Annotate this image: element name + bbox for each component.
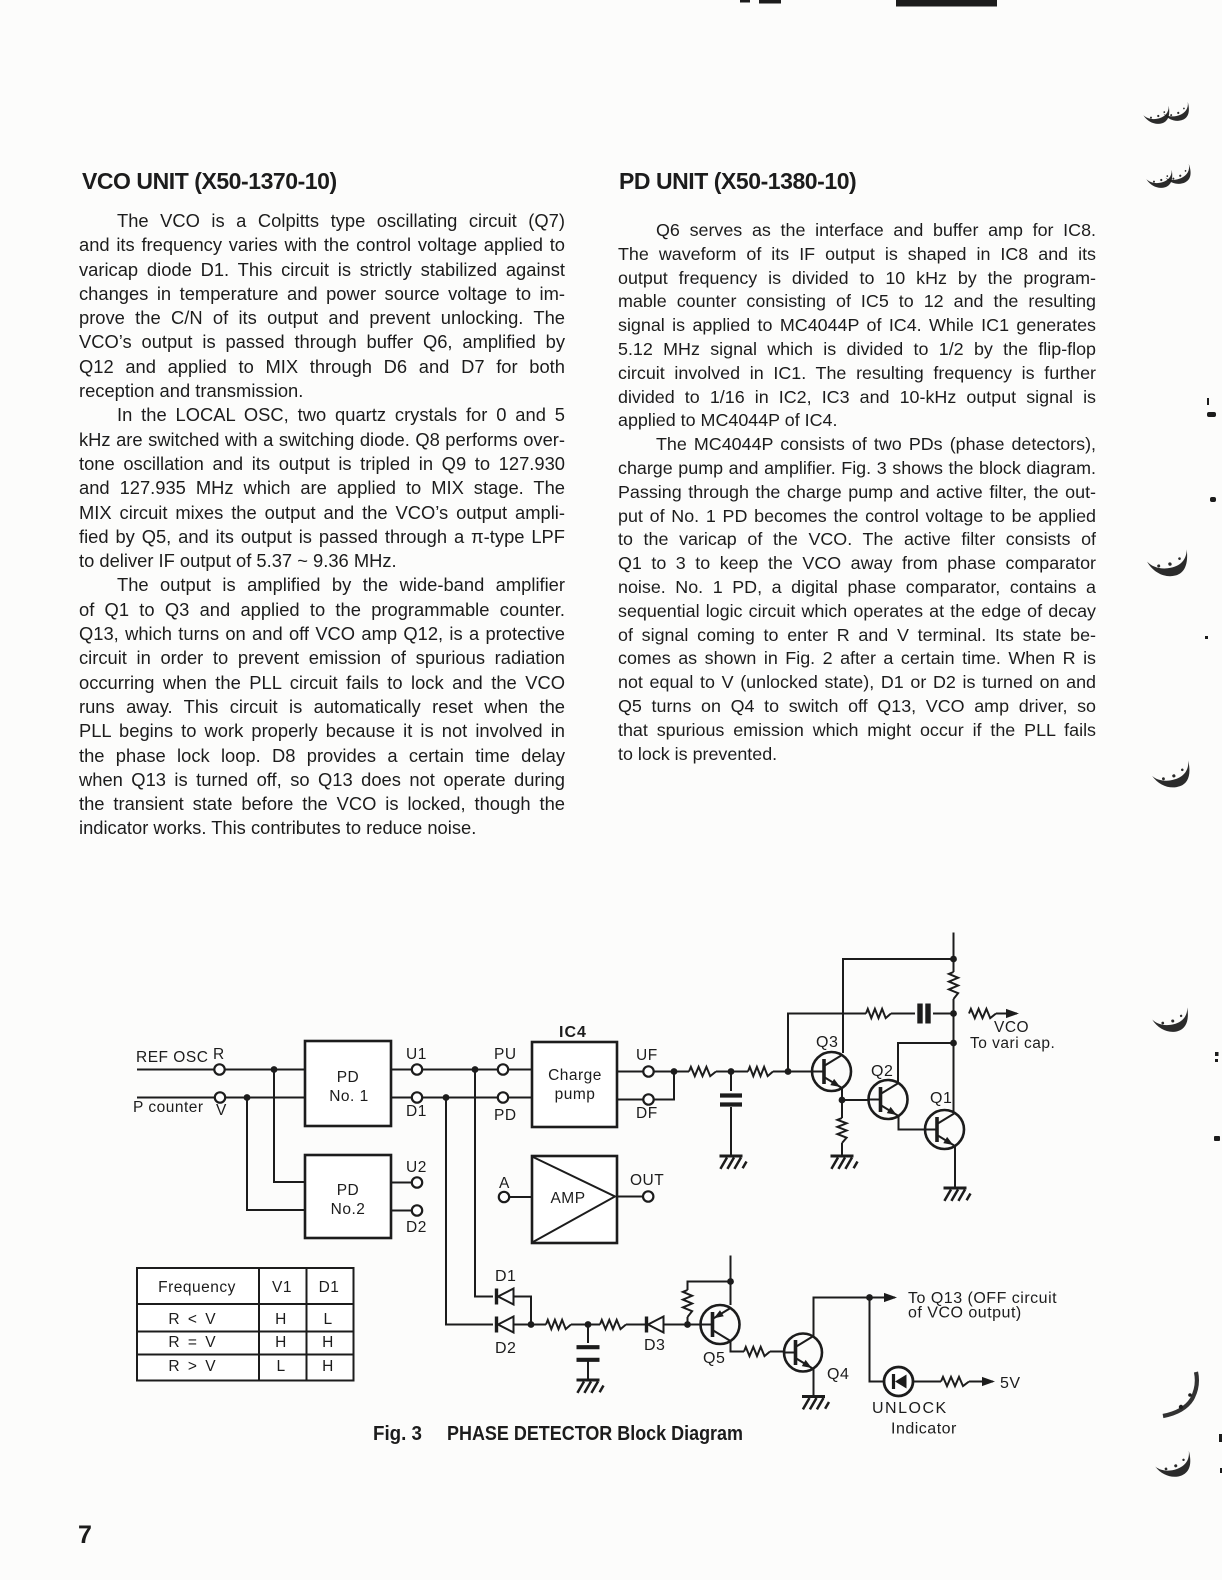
diode D2 (495, 1317, 516, 1358)
svg-text:D2: D2 (406, 1219, 427, 1236)
resistor active filter R2 (748, 1067, 773, 1076)
AMP block (532, 1156, 617, 1243)
label To Q13 (OFF circuit (908, 1290, 1057, 1307)
label To vari cap. (970, 1035, 1055, 1052)
node D1 (PD No.1 down output) (391, 1092, 427, 1120)
wire capacitor to VCO node (933, 1010, 957, 1017)
ground under shunt capacitor (720, 1156, 747, 1169)
node to vari cap junction (950, 1040, 957, 1113)
IC4 charge pump block (532, 1024, 617, 1127)
left column text (79, 210, 565, 842)
heading PD UNIT (619, 168, 856, 195)
wire DF tied up to UF node (654, 1072, 674, 1100)
heading VCO UNIT (82, 168, 337, 195)
transistor Q1 (925, 1090, 964, 1149)
wire Q1 emitter to ground (954, 1146, 956, 1188)
punch mark 4 (1151, 760, 1195, 793)
capacitor feedback (series) (920, 1004, 928, 1024)
resistor lpf Ra (546, 1320, 571, 1329)
junction diodes output (514, 1321, 547, 1328)
label Indicator (891, 1421, 957, 1438)
svg-text:U2: U2 (406, 1159, 427, 1176)
svg-text:pump: pump (555, 1086, 596, 1103)
wire PU node down to diode D1 (475, 1070, 493, 1297)
edge tick marks (1205, 398, 1222, 1473)
node U2 (391, 1159, 427, 1188)
svg-text:Q4: Q4 (827, 1366, 849, 1383)
svg-text:DF: DF (636, 1105, 658, 1122)
wire to cap node (571, 1321, 600, 1328)
svg-text:PD: PD (494, 1107, 517, 1124)
svg-text:H: H (275, 1311, 287, 1328)
svg-text:D1: D1 (406, 1103, 427, 1120)
wire D3 to Q5 base (664, 1321, 713, 1328)
wire R2 to Q3 base junction (773, 1068, 812, 1075)
supply rail above Q5 (727, 1256, 734, 1306)
diode D1 (495, 1268, 516, 1305)
wire Q4 emitter to ground (813, 1368, 815, 1397)
wire resistor to feedback capacitor (891, 1013, 915, 1015)
shunt capacitor lpf (577, 1325, 600, 1381)
svg-text:Charge: Charge (548, 1067, 602, 1084)
svg-text:IC4: IC4 (559, 1024, 587, 1041)
resistor feedback (866, 1009, 891, 1018)
svg-text:R < V: R < V (168, 1311, 217, 1328)
svg-text:PU: PU (494, 1046, 517, 1063)
truth table V1/D1 (137, 1268, 354, 1381)
wire feedback branch up from Q3 base node (788, 1014, 866, 1072)
svg-text:Q2: Q2 (871, 1063, 893, 1080)
svg-text:V: V (216, 1102, 227, 1119)
svg-text:PHASE DETECTOR Block Diagram: PHASE DETECTOR Block Diagram (447, 1423, 743, 1445)
label VCO (994, 1019, 1029, 1036)
node D2 (PD No.2 down output) (391, 1205, 427, 1236)
wire resistor to VCO node and down (953, 999, 955, 1043)
svg-text:No.2: No.2 (331, 1201, 366, 1218)
wire Q4 collector up and right to output node (814, 1294, 873, 1337)
right column text (618, 220, 1096, 767)
VCO output resistor and arrow (969, 1009, 1019, 1018)
PD No.1 block (305, 1041, 391, 1126)
wire Q3 emitter junction (839, 1088, 846, 1118)
svg-text:PD: PD (337, 1182, 360, 1199)
diode D3 (644, 1317, 665, 1355)
transistor Q4 (784, 1334, 849, 1384)
svg-text:D3: D3 (644, 1337, 665, 1354)
svg-text:REF OSC: REF OSC (136, 1049, 208, 1066)
wire down to unlock indicator (870, 1298, 885, 1382)
UNLOCK indicator LED (884, 1367, 913, 1396)
svg-text:R: R (213, 1046, 225, 1063)
svg-text:H: H (322, 1334, 334, 1351)
node OUT (617, 1172, 664, 1202)
wire UF junction (654, 1068, 689, 1075)
svg-text:R = V: R = V (168, 1334, 217, 1351)
svg-text:Q1: Q1 (930, 1090, 952, 1107)
svg-text:5V: 5V (1000, 1375, 1021, 1392)
svg-text:A: A (499, 1175, 510, 1192)
svg-text:of VCO output): of VCO output) (908, 1305, 1022, 1322)
ground under Q4 (802, 1397, 829, 1410)
svg-text:To vari cap.: To vari cap. (970, 1035, 1055, 1052)
wire R branch to PD No.2 upper input (274, 1070, 305, 1183)
ground under Q1 (944, 1188, 971, 1201)
transistor Q3 (812, 1034, 851, 1091)
svg-text:P counter: P counter (133, 1099, 204, 1116)
caption Fig. 3 (373, 1423, 743, 1445)
punch mark 6 (open C) (1163, 1372, 1197, 1416)
wire D1 to PD with junction to D2 diode line (422, 1094, 498, 1101)
wire D1 to D2 node (514, 1297, 532, 1325)
svg-text:PD: PD (337, 1069, 360, 1086)
punch mark pair 2 (1146, 170, 1176, 192)
wire V to PD No.1 (225, 1094, 305, 1101)
wire Q2 emitter to Q1 base (899, 1116, 926, 1130)
wire PD node down to diode D2 (446, 1098, 493, 1325)
resistor active filter R1 (689, 1067, 716, 1076)
svg-text:Q5: Q5 (703, 1350, 725, 1367)
svg-text:Q3: Q3 (816, 1034, 838, 1051)
PD No.2 block (305, 1155, 391, 1238)
svg-text:H: H (322, 1358, 334, 1375)
node DF (617, 1094, 658, 1122)
ground under lpf capacitor (577, 1380, 604, 1393)
shunt capacitor at Q3 base filter (720, 1072, 742, 1157)
svg-text:UF: UF (636, 1047, 658, 1064)
node PD (494, 1092, 532, 1124)
resistor Q4 base (744, 1347, 784, 1356)
svg-text:AMP: AMP (550, 1190, 585, 1207)
svg-text:OUT: OUT (630, 1172, 664, 1189)
svg-text:U1: U1 (406, 1046, 427, 1063)
svg-text:L: L (323, 1311, 332, 1328)
node U1 (391, 1046, 427, 1075)
svg-text:No. 1: No. 1 (329, 1088, 369, 1105)
svg-text:D2: D2 (495, 1340, 516, 1357)
wire V branch to PD No.2 lower input (247, 1098, 305, 1211)
resistor collector load (949, 972, 958, 999)
wire U1 to PU with junction to D1 diode line (422, 1066, 498, 1073)
svg-text:UNLOCK: UNLOCK (872, 1400, 948, 1417)
resistor Q5 bias (683, 1282, 731, 1325)
svg-text:Fig. 3: Fig. 3 (373, 1423, 422, 1445)
punch mark 5 (1151, 1007, 1192, 1036)
punch mark pair 1 (1143, 106, 1173, 128)
resistor Q3 emitter (837, 1118, 846, 1156)
svg-text:V1: V1 (272, 1279, 292, 1296)
resistor lpf Rb (600, 1320, 626, 1329)
label UNLOCK (872, 1400, 948, 1417)
node R: REF OSC input (136, 1046, 225, 1075)
ground under Q3 emitter resistor (831, 1156, 858, 1169)
svg-text:R > V: R > V (168, 1358, 217, 1375)
supply rail stub top (950, 933, 957, 973)
resistor to 5V (941, 1377, 995, 1386)
punch mark 7 (1154, 1451, 1196, 1483)
transistor Q5 (PNP) (701, 1305, 740, 1367)
top edge scan bar (896, 0, 997, 7)
svg-text:D1: D1 (319, 1279, 340, 1296)
label of VCO output) (908, 1305, 1022, 1322)
wire to junction with shunt cap (716, 1068, 748, 1075)
arrow to Q13 (870, 1293, 898, 1302)
punch mark 3 (1146, 549, 1191, 580)
node PU (494, 1046, 532, 1075)
wire R to PD No.1 (225, 1066, 305, 1073)
node UF (617, 1047, 658, 1077)
page number (78, 1521, 92, 1550)
wire LED to resistor (913, 1381, 941, 1383)
wire top rail to Q3 collector (843, 959, 954, 1053)
svg-text:Frequency: Frequency (158, 1279, 236, 1296)
wire Q5 collector to Q4 base resistor (731, 1341, 745, 1352)
svg-text:D1: D1 (495, 1268, 516, 1285)
node A (amp input) (499, 1175, 532, 1202)
svg-text:L: L (276, 1358, 285, 1375)
wire vari-cap node to Q2 collector (898, 1043, 954, 1082)
node V: P counter input (133, 1092, 227, 1119)
label 5V (1000, 1375, 1021, 1392)
svg-text:H: H (275, 1334, 287, 1351)
wire Rb to D3 (626, 1324, 645, 1326)
svg-text:Indicator: Indicator (891, 1421, 957, 1438)
wire Q3 emitter to Q2 base (842, 1099, 869, 1101)
svg-text:VCO: VCO (994, 1019, 1029, 1036)
transistor Q2 (869, 1063, 908, 1119)
